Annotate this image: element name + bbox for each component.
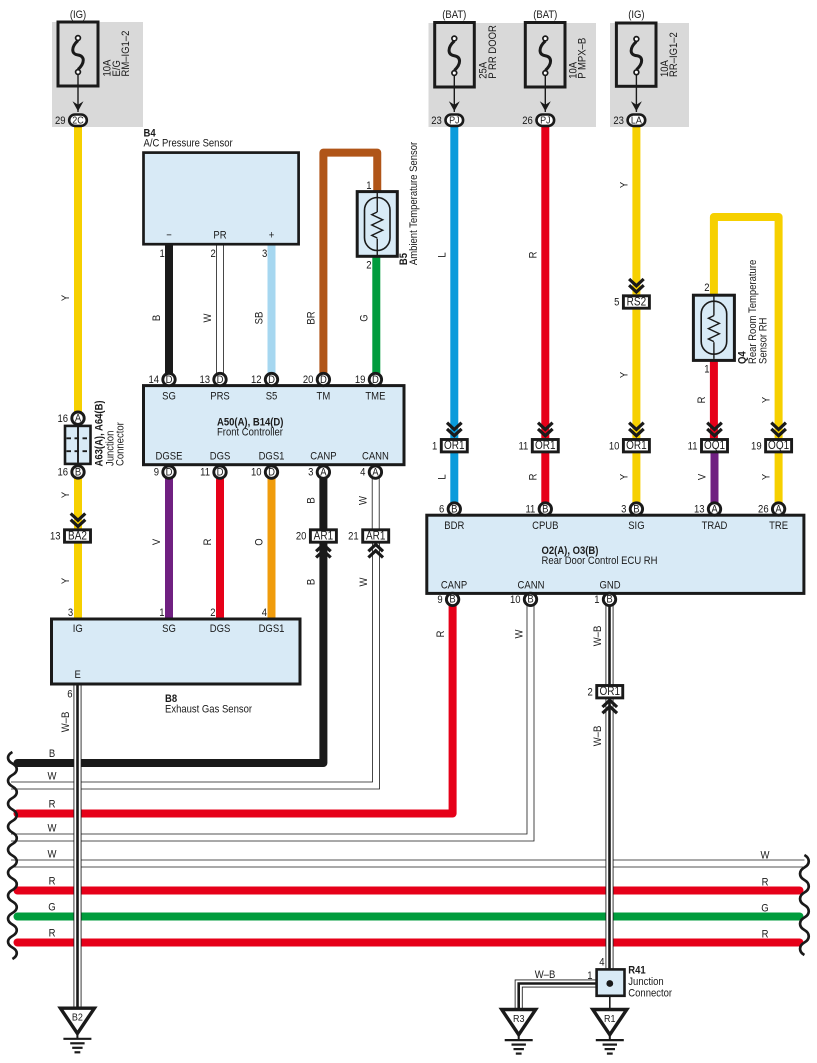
- svg-text:(IG): (IG): [70, 10, 86, 22]
- svg-text:D: D: [268, 467, 275, 479]
- svg-text:CANN: CANN: [518, 580, 545, 592]
- svg-text:TME: TME: [365, 391, 385, 403]
- svg-text:D: D: [372, 374, 379, 386]
- svg-text:RM–IG1–2: RM–IG1–2: [121, 30, 133, 76]
- svg-text:IG: IG: [73, 623, 83, 635]
- svg-text:2: 2: [210, 607, 216, 619]
- svg-text:W: W: [202, 313, 214, 322]
- svg-text:20: 20: [303, 375, 314, 387]
- svg-text:R: R: [528, 252, 540, 259]
- svg-text:TRE: TRE: [769, 520, 788, 532]
- svg-text:Sensor RH: Sensor RH: [758, 318, 770, 364]
- svg-text:R3: R3: [513, 1013, 524, 1025]
- svg-text:L: L: [437, 252, 449, 258]
- svg-text:BA2: BA2: [68, 530, 87, 543]
- svg-text:P RR DOOR: P RR DOOR: [487, 25, 499, 79]
- svg-text:B: B: [449, 594, 455, 606]
- svg-text:(BAT): (BAT): [533, 10, 557, 22]
- svg-text:2C: 2C: [72, 115, 83, 127]
- svg-text:W: W: [761, 850, 770, 862]
- svg-text:Y: Y: [619, 182, 631, 188]
- svg-text:B: B: [451, 504, 457, 516]
- svg-text:CANN: CANN: [362, 451, 389, 463]
- svg-text:CANP: CANP: [310, 451, 337, 463]
- svg-text:3: 3: [621, 504, 627, 516]
- svg-text:−: −: [166, 230, 172, 242]
- svg-text:2: 2: [366, 260, 372, 272]
- svg-text:Connector: Connector: [115, 422, 127, 466]
- svg-text:A: A: [775, 504, 781, 516]
- svg-text:Ambient Temperature Sensor: Ambient Temperature Sensor: [409, 141, 421, 265]
- svg-text:R41: R41: [628, 965, 646, 977]
- svg-text:PJ: PJ: [540, 115, 551, 127]
- svg-text:11: 11: [688, 441, 698, 453]
- svg-text:Y: Y: [60, 295, 72, 301]
- svg-text:16: 16: [57, 467, 68, 479]
- svg-text:29: 29: [55, 115, 66, 127]
- svg-text:Exhaust Gas Sensor: Exhaust Gas Sensor: [165, 704, 253, 716]
- svg-text:2: 2: [211, 248, 217, 260]
- svg-text:DGS: DGS: [210, 451, 231, 463]
- svg-text:2: 2: [587, 687, 593, 699]
- svg-text:SB: SB: [254, 312, 266, 325]
- svg-text:W: W: [48, 771, 57, 783]
- svg-text:B: B: [151, 315, 163, 321]
- svg-text:Y: Y: [60, 492, 72, 498]
- svg-text:GND: GND: [599, 580, 620, 592]
- svg-text:PJ: PJ: [449, 115, 460, 127]
- svg-text:Y: Y: [761, 474, 773, 480]
- svg-text:4: 4: [262, 607, 268, 619]
- svg-text:9: 9: [437, 594, 443, 606]
- svg-text:CANP: CANP: [441, 580, 468, 592]
- svg-text:10: 10: [510, 594, 521, 606]
- svg-text:19: 19: [751, 441, 762, 453]
- svg-text:9: 9: [154, 467, 160, 479]
- svg-text:20: 20: [296, 531, 307, 543]
- svg-text:A/C Pressure Sensor: A/C Pressure Sensor: [144, 138, 234, 150]
- svg-text:OR1: OR1: [535, 439, 556, 452]
- svg-text:R: R: [49, 928, 56, 940]
- svg-text:D: D: [166, 467, 173, 479]
- svg-text:D: D: [217, 467, 224, 479]
- svg-text:V: V: [697, 474, 709, 480]
- svg-text:10: 10: [251, 467, 262, 479]
- svg-text:SG: SG: [162, 623, 176, 635]
- svg-text:13: 13: [694, 504, 705, 516]
- svg-text:R: R: [528, 474, 540, 481]
- svg-text:R1: R1: [604, 1013, 615, 1025]
- svg-text:AR1: AR1: [314, 530, 333, 543]
- svg-text:G: G: [761, 903, 768, 915]
- svg-text:DGS: DGS: [210, 623, 231, 635]
- svg-text:6: 6: [67, 689, 73, 701]
- svg-text:P MPX–B: P MPX–B: [577, 38, 589, 79]
- svg-text:Y: Y: [619, 474, 631, 480]
- svg-text:R: R: [762, 877, 769, 889]
- svg-text:11: 11: [200, 467, 210, 479]
- svg-text:W: W: [48, 823, 57, 835]
- svg-text:1: 1: [704, 364, 710, 376]
- svg-text:A: A: [320, 467, 326, 479]
- svg-text:16: 16: [57, 413, 68, 425]
- svg-text:Front Controller: Front Controller: [217, 427, 283, 439]
- svg-text:TM: TM: [317, 391, 331, 403]
- svg-text:V: V: [151, 539, 163, 545]
- svg-text:(BAT): (BAT): [442, 10, 466, 22]
- svg-text:D: D: [166, 374, 173, 386]
- svg-text:LA: LA: [631, 115, 642, 127]
- svg-text:W–B: W–B: [535, 969, 556, 981]
- svg-text:W: W: [48, 849, 57, 861]
- svg-text:R: R: [696, 397, 708, 404]
- svg-text:DGSE: DGSE: [156, 451, 183, 463]
- svg-text:W: W: [514, 629, 526, 638]
- svg-text:B: B: [306, 579, 318, 585]
- svg-text:D: D: [320, 374, 327, 386]
- svg-text:BR: BR: [306, 311, 318, 324]
- svg-text:W–B: W–B: [60, 712, 72, 733]
- svg-text:11: 11: [518, 441, 528, 453]
- svg-text:DGS1: DGS1: [259, 451, 285, 463]
- svg-text:B2: B2: [72, 1012, 83, 1024]
- svg-text:B: B: [606, 594, 612, 606]
- svg-text:OR1: OR1: [599, 685, 620, 698]
- svg-text:1: 1: [160, 248, 166, 260]
- svg-text:TRAD: TRAD: [702, 520, 728, 532]
- svg-text:SG: SG: [162, 391, 176, 403]
- svg-text:26: 26: [522, 115, 533, 127]
- svg-text:G: G: [48, 902, 55, 914]
- svg-text:R: R: [435, 631, 447, 638]
- svg-text:S5: S5: [266, 391, 278, 403]
- svg-text:6: 6: [439, 504, 445, 516]
- svg-text:1: 1: [159, 607, 165, 619]
- svg-text:23: 23: [431, 115, 442, 127]
- svg-text:1: 1: [366, 180, 372, 192]
- svg-text:2: 2: [704, 282, 710, 294]
- svg-text:B: B: [542, 504, 548, 516]
- svg-text:PRS: PRS: [210, 391, 230, 403]
- svg-text:W: W: [358, 496, 370, 505]
- svg-text:R: R: [202, 539, 214, 546]
- svg-text:B: B: [49, 748, 55, 760]
- svg-text:D: D: [268, 374, 275, 386]
- svg-text:5: 5: [614, 297, 620, 309]
- svg-text:26: 26: [758, 504, 769, 516]
- svg-text:Y: Y: [761, 397, 773, 403]
- svg-text:R: R: [49, 876, 56, 888]
- svg-text:R: R: [762, 929, 769, 941]
- svg-text:14: 14: [148, 375, 159, 387]
- svg-text:4: 4: [599, 957, 605, 969]
- svg-text:L: L: [437, 474, 449, 480]
- svg-text:12: 12: [251, 375, 262, 387]
- svg-text:B: B: [633, 504, 639, 516]
- svg-text:R: R: [49, 799, 56, 811]
- svg-text:1: 1: [594, 594, 600, 606]
- svg-text:SIG: SIG: [628, 520, 644, 532]
- svg-text:3: 3: [262, 248, 268, 260]
- svg-text:OR1: OR1: [626, 439, 647, 452]
- svg-text:E: E: [75, 669, 81, 681]
- svg-text:B: B: [75, 467, 81, 479]
- svg-text:CPUB: CPUB: [532, 520, 559, 532]
- svg-text:13: 13: [199, 375, 210, 387]
- svg-text:Junction: Junction: [628, 976, 664, 988]
- svg-text:B: B: [527, 594, 533, 606]
- svg-text:10: 10: [609, 441, 620, 453]
- svg-text:3: 3: [308, 467, 314, 479]
- svg-text:PR: PR: [213, 230, 226, 242]
- svg-text:11: 11: [525, 504, 535, 516]
- svg-text:O: O: [254, 538, 266, 545]
- svg-text:OQ1: OQ1: [768, 439, 789, 452]
- svg-text:21: 21: [348, 531, 359, 543]
- svg-text:W–B: W–B: [592, 626, 604, 647]
- svg-text:G: G: [359, 314, 371, 321]
- svg-text:+: +: [269, 230, 275, 242]
- svg-text:3: 3: [68, 607, 74, 619]
- svg-text:13: 13: [50, 531, 61, 543]
- svg-text:B: B: [306, 497, 318, 503]
- svg-text:A: A: [75, 413, 81, 425]
- svg-text:Y: Y: [619, 372, 631, 378]
- svg-text:Rear Door Control ECU RH: Rear Door Control ECU RH: [542, 555, 658, 567]
- svg-text:Y: Y: [60, 578, 72, 584]
- svg-text:OR1: OR1: [444, 439, 465, 452]
- svg-text:1: 1: [432, 441, 438, 453]
- svg-text:4: 4: [360, 467, 366, 479]
- svg-text:BDR: BDR: [444, 520, 464, 532]
- svg-text:RS2: RS2: [627, 296, 646, 309]
- svg-text:W: W: [358, 577, 370, 586]
- svg-text:A: A: [372, 467, 378, 479]
- svg-text:Connector: Connector: [628, 988, 672, 1000]
- svg-text:OQ1: OQ1: [704, 439, 725, 452]
- svg-text:(IG): (IG): [628, 10, 644, 22]
- svg-text:AR1: AR1: [366, 530, 385, 543]
- svg-text:1: 1: [587, 970, 593, 982]
- svg-text:23: 23: [613, 115, 624, 127]
- svg-text:W–B: W–B: [592, 726, 604, 747]
- svg-text:19: 19: [355, 375, 366, 387]
- svg-text:DGS1: DGS1: [259, 623, 285, 635]
- svg-text:A: A: [711, 504, 717, 516]
- svg-text:RR–IG1–2: RR–IG1–2: [669, 32, 681, 77]
- svg-text:D: D: [217, 374, 224, 386]
